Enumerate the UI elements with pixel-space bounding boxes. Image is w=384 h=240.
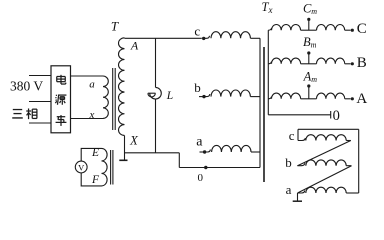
svg-text:c: c — [289, 128, 295, 143]
svg-text:B: B — [357, 55, 367, 71]
svg-text:A: A — [130, 39, 139, 53]
svg-text:x: x — [89, 109, 95, 121]
svg-text:b: b — [194, 80, 201, 95]
svg-text:c: c — [194, 23, 200, 38]
svg-text:a: a — [196, 134, 203, 149]
svg-text:Am: Am — [303, 70, 318, 85]
svg-text:a: a — [286, 182, 292, 197]
svg-text:L: L — [166, 90, 173, 102]
svg-text:380 V: 380 V — [10, 78, 43, 93]
svg-text:F: F — [91, 174, 100, 186]
svg-text:E: E — [91, 147, 99, 159]
svg-text:0: 0 — [333, 108, 340, 124]
svg-text:T: T — [111, 19, 119, 34]
svg-text:Cm: Cm — [303, 2, 317, 17]
svg-text:C: C — [357, 21, 367, 37]
svg-text:X: X — [129, 134, 139, 148]
svg-text:V: V — [78, 163, 85, 173]
svg-text:b: b — [285, 155, 292, 170]
svg-text:0: 0 — [197, 172, 203, 184]
svg-text:A: A — [356, 91, 367, 107]
svg-text:Tx: Tx — [262, 0, 273, 15]
svg-text:Bm: Bm — [303, 35, 317, 50]
svg-text:a: a — [89, 79, 95, 91]
